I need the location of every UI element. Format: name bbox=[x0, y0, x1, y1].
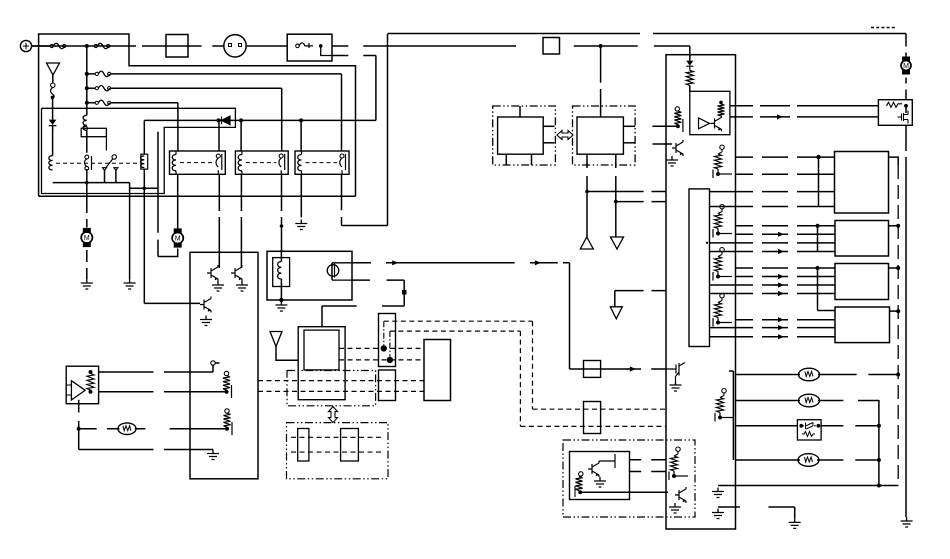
wire y=449.5 bbox=[79, 449, 213, 451]
motor M3 (right) bbox=[901, 57, 911, 75]
wire y=201.6 to ECU bbox=[616, 201, 666, 203]
node (lamp wire left) bbox=[77, 427, 81, 431]
svg-text:M: M bbox=[175, 236, 181, 243]
arrow mark (y369) bbox=[626, 366, 636, 371]
fuse F2 bbox=[94, 43, 110, 48]
wire CB3 pin3 y=285 bbox=[710, 282, 835, 287]
driver cell DC5 bbox=[715, 389, 734, 422]
gauge G1 (circle on feed wire) bbox=[224, 35, 246, 57]
wire diode bus y=120.4 bbox=[144, 119, 376, 121]
dashed wire y=391.4 bbox=[258, 390, 424, 392]
wire left column to diode bbox=[52, 97, 54, 119]
ground (ECU g2) bbox=[712, 509, 724, 519]
dashed wire y=409.2 bbox=[533, 408, 667, 410]
node (trunk/fuse3) bbox=[85, 72, 89, 76]
module RB right pins bbox=[623, 126, 635, 143]
node (x878/diode) bbox=[877, 424, 881, 428]
connector triangle (up) bbox=[580, 237, 593, 249]
conn box RB2 (tall right) bbox=[424, 340, 451, 401]
ground (Q9) bbox=[670, 381, 682, 391]
wire motor1 column bbox=[86, 183, 88, 228]
wire CB3 pin4 y=293.5 bbox=[710, 291, 835, 296]
driver cell DC6 bbox=[669, 447, 688, 480]
arrow mark (sensor out1 a) bbox=[388, 260, 398, 265]
switch contact (in module, y363) bbox=[211, 361, 220, 372]
module RB bottom pins bbox=[587, 154, 616, 165]
wire relay A left pin bottom (to motor M2) bbox=[177, 174, 179, 228]
module box LB (dash-dot) bbox=[493, 106, 556, 165]
wire fuse F3 output y=73.9 bbox=[87, 73, 342, 75]
wire relay C left pin top bbox=[300, 120, 302, 151]
battery B1 (positive terminal) bbox=[20, 40, 50, 51]
wire RB pin2 down to triangle bbox=[615, 163, 617, 237]
dashed wire y=348.4 bbox=[339, 347, 424, 349]
dashed wire y=437.3 bbox=[291, 436, 384, 438]
dashed wire y=321.2 bbox=[384, 320, 533, 322]
wire S2 right throw down bbox=[115, 171, 117, 183]
transfer arrow (LB-RB) bbox=[557, 131, 573, 140]
wire y=225.5 link bbox=[342, 225, 388, 227]
node big (T1 b) bbox=[387, 357, 393, 363]
arrow mark (y116.9) bbox=[773, 114, 783, 119]
wire relay A right pin bottom bbox=[218, 174, 220, 268]
wire feed drop x=689.8 bbox=[689, 46, 691, 61]
wire drop to ground g3 bbox=[794, 507, 796, 518]
wire drop x=569.5 bbox=[569, 263, 571, 369]
wire sensor out2 y=280.1 bbox=[352, 279, 404, 281]
wire RB out2 y=144 bbox=[652, 143, 672, 145]
wire diode box y=425.8 bbox=[736, 425, 879, 427]
svg-text:M: M bbox=[903, 63, 909, 70]
wire lamp3 y=460 bbox=[736, 459, 879, 461]
wire CB2 pin1 y=225.8 bbox=[736, 225, 835, 227]
diode D2 (vertical, pointing down) bbox=[49, 120, 57, 131]
wire y=182.6 (trunk to S2) bbox=[53, 182, 130, 184]
transistor Q8 (ECU bottom) bbox=[669, 487, 686, 513]
dashed stub (top right) bbox=[871, 27, 896, 29]
conn rect (M2 left) bbox=[298, 429, 309, 462]
connector triangle (MC) bbox=[270, 332, 282, 347]
wire ECU out2 y=116.9 bbox=[730, 116, 879, 118]
fuse F5 bbox=[95, 100, 111, 105]
node (x878/lamp3) bbox=[877, 458, 881, 462]
module LB bottom pins bbox=[506, 154, 531, 165]
wire motor M3 to driver box bbox=[905, 78, 907, 100]
transistor Q5 (ECU) bbox=[666, 140, 683, 166]
sensor element (circle) bbox=[327, 263, 352, 280]
diode D3 (vertical) bbox=[686, 61, 693, 71]
wire gnd y=507 bbox=[718, 506, 795, 508]
node (x878/gnd wire) bbox=[877, 484, 881, 488]
fuse box (small, on feed wire) bbox=[543, 38, 560, 55]
wire drop x=600.6 (to relay box RB) bbox=[600, 46, 602, 117]
lamp LP3 bbox=[799, 394, 820, 407]
breaker frame (around trunk) bbox=[81, 126, 106, 150]
wire CB4 pin4 y=336.8 bbox=[710, 334, 835, 339]
transistor Q9 (ECU, y369 input) bbox=[666, 363, 685, 382]
wire coil K0b down bbox=[143, 169, 145, 188]
transistor Q1 bbox=[207, 265, 224, 291]
wire relay B right pin top (from F4) bbox=[281, 88, 283, 151]
changeover switch S2 bbox=[103, 155, 118, 171]
sensor coil bbox=[278, 251, 282, 300]
relay K1 (box A) bbox=[170, 151, 226, 174]
wire lamp2 y=400 bbox=[736, 400, 879, 402]
transfer arrow (vertical) bbox=[329, 407, 338, 423]
conn rect (M2 right) bbox=[341, 429, 359, 462]
fan driver box (right) bbox=[878, 100, 912, 126]
wire bottom out3 y=492.3 bbox=[580, 491, 668, 493]
connector box CB2 bbox=[835, 221, 889, 257]
wire CB4 pin3 y=327.6 bbox=[710, 325, 835, 330]
relay K2 (box B) bbox=[235, 151, 288, 174]
wire op-amp down bbox=[78, 429, 80, 450]
node (y188/coil) bbox=[143, 187, 147, 191]
wire CB2 pin4 y=251.5 bbox=[710, 249, 835, 254]
lamp LP4 bbox=[798, 454, 819, 467]
wire relay B left pin top bbox=[240, 120, 242, 151]
wire relay C right pin top (from F3) bbox=[341, 74, 343, 151]
wire left column to coil bbox=[52, 126, 54, 156]
connector triangle (left, page ref) bbox=[47, 63, 60, 75]
transistor Q4 (ECU) bbox=[711, 115, 722, 131]
wire relay C left pin bottom bbox=[300, 174, 302, 217]
wire triangle to switch bbox=[52, 75, 54, 84]
bottom inner box bbox=[570, 452, 630, 500]
diode D1 (on diode bus, pointing left) bbox=[222, 116, 231, 125]
wire trunk below contact bbox=[86, 169, 88, 183]
wire MC top pin bbox=[321, 306, 323, 327]
ignition switch contact bbox=[296, 43, 332, 56]
wire riser x=375.9 bbox=[375, 56, 377, 121]
wire relay C right pin bottom bbox=[341, 174, 343, 225]
wire y=391.7 (op-amp to module) bbox=[99, 391, 227, 393]
wire relay B right pin bottom (to sensor coil) bbox=[280, 174, 284, 251]
relay coil K0b (boxed coil) bbox=[141, 120, 148, 169]
wire CB1 pin4 y=206.5 bbox=[710, 206, 835, 208]
pass connector box A bbox=[584, 361, 601, 378]
svg-text:M: M bbox=[84, 235, 90, 242]
ignition switch box bbox=[287, 34, 332, 61]
connector box CB4 bbox=[835, 307, 890, 343]
wire fuse F4 output y=88.2 bbox=[87, 87, 282, 89]
wire y=306 (to MC) bbox=[322, 305, 404, 307]
ground (right rail) bbox=[901, 517, 913, 527]
wire below motor M1 bbox=[86, 250, 88, 279]
relay K3 (box C) bbox=[295, 151, 349, 174]
module area box M1 (dash-dot) bbox=[287, 371, 376, 406]
node (diode bus / relay A) bbox=[217, 118, 221, 122]
ground (g3) bbox=[789, 518, 801, 528]
wire relay A left pin top bbox=[177, 103, 179, 151]
sensor box (center) bbox=[267, 251, 352, 300]
wire bottom out2 y=471.5 bbox=[630, 471, 667, 473]
connector box CB3 bbox=[835, 264, 889, 300]
wire ignition output y=55.5 bbox=[332, 55, 376, 57]
ground (below relay C) bbox=[295, 220, 307, 230]
wire trunk below L1 bbox=[86, 130, 88, 153]
node A (battery bus junction) bbox=[85, 44, 89, 48]
wire riser x=387.5 (to top bus) bbox=[387, 34, 389, 226]
wire CB2 right pin bbox=[889, 224, 901, 228]
resistor R7 (fan box) bbox=[887, 102, 908, 107]
wire fuse F5 output y=102.8 bbox=[87, 102, 178, 104]
dashed drop x=532.5 bbox=[532, 321, 534, 409]
wire triangle to MC bbox=[276, 347, 298, 361]
motor M1 bbox=[81, 228, 92, 247]
ground (ECU g1) bbox=[712, 488, 724, 498]
wire CB2 tie x=817.5 bbox=[816, 224, 820, 252]
wire bottom out1 y=459.8 bbox=[630, 459, 667, 461]
wire CB1 pin2 y=174.3 bbox=[736, 173, 835, 175]
lamp LP2 bbox=[799, 368, 820, 381]
wire CB1 tie x=818.5 bbox=[816, 155, 820, 207]
inner enclosure loop (diode sub-box) bbox=[42, 108, 236, 193]
bottom module box (dash-dot) bbox=[563, 440, 695, 517]
wire x=158 (motor M2 return riser) bbox=[157, 132, 159, 257]
res cell (bottom inner) bbox=[575, 472, 583, 497]
wire CB1 pin3 y=191.6 bbox=[710, 191, 835, 193]
wire right rail x=906 bbox=[905, 106, 907, 517]
node (fb top) bbox=[89, 370, 93, 374]
connector triangle (down) bbox=[611, 237, 624, 249]
wire x=733.4 (lamp feed) bbox=[729, 371, 733, 460]
pass connector box B bbox=[584, 402, 601, 434]
module LB top pin bbox=[519, 106, 521, 117]
mosfet Q6 (fan box) bbox=[898, 111, 909, 124]
driver module box (left center) bbox=[190, 252, 258, 478]
transistor Q2 bbox=[231, 265, 248, 291]
fuse F1 bbox=[50, 43, 66, 48]
connector triangle (down 2) bbox=[610, 307, 622, 319]
wire y=369 (to ECU) bbox=[570, 368, 667, 370]
node (RB pin1 tee) bbox=[585, 190, 589, 194]
wire drop x=614.8 bbox=[614, 291, 616, 307]
op-amp U2 (ECU) bbox=[699, 118, 710, 129]
wire drop x=404.2 bbox=[403, 280, 405, 306]
op-amp U1 triangle bbox=[66, 381, 85, 400]
resistor R5 (pull-up) bbox=[718, 101, 725, 116]
wire RB out1 y=126.3 bbox=[652, 125, 678, 127]
wire drop x=878.9 bbox=[878, 400, 880, 486]
wire CB3 right pin bbox=[889, 266, 901, 270]
resistor R6 (input) bbox=[674, 107, 683, 132]
wire relay B left pin bottom bbox=[240, 174, 242, 268]
module area box M2 (dash-dot) bbox=[287, 423, 389, 479]
transistor Q7 (bottom inner) bbox=[588, 454, 615, 487]
inner module box IM (ECU) bbox=[689, 189, 710, 347]
wire y=188.3 bbox=[130, 183, 158, 189]
ground (below x=129.6) bbox=[124, 279, 136, 289]
node (fb bottom) bbox=[89, 390, 93, 394]
wire CB2 pin2 y=234.3 bbox=[736, 232, 835, 237]
wire right drop x=906 (to motor M3) bbox=[905, 34, 907, 59]
module box RB (dash-dot) bbox=[573, 106, 636, 165]
arrow mark (x404) bbox=[402, 290, 407, 295]
dashed link rail x=898.2 bbox=[897, 165, 899, 486]
MC outer box bbox=[298, 327, 345, 400]
connector box CB1 bbox=[835, 152, 889, 214]
res cell R2 (in module) bbox=[224, 409, 233, 435]
dashed wire y=426.4 bbox=[520, 425, 666, 427]
wire CB3 pin1 y=268 bbox=[736, 267, 835, 269]
node (diode bus / relay C) bbox=[299, 118, 303, 122]
resistor R4 (feed) bbox=[686, 70, 693, 91]
motor M2 bbox=[172, 228, 183, 247]
wire CB1 pin1 y=157.1 bbox=[736, 156, 835, 158]
wire S2 left throw down bbox=[104, 171, 106, 183]
top bus wire y=33.5 bbox=[388, 33, 907, 35]
dashed relay link y=163.2 bbox=[56, 162, 139, 164]
node (trunk/fuse4) bbox=[85, 86, 89, 90]
dashed wire y=359.9 bbox=[339, 359, 424, 361]
driver cell DC3 bbox=[713, 248, 732, 281]
wire y=428.7 (lamp wire) bbox=[79, 428, 227, 430]
resistor R3 (op-amp fb) bbox=[87, 374, 94, 391]
wire below motor M2 bbox=[158, 249, 178, 257]
diode-resistor box (parallel) bbox=[797, 420, 821, 440]
wire lamp1 y=374.5 bbox=[736, 374, 899, 376]
module LB right pins bbox=[543, 126, 554, 143]
wire op-amp output stub bbox=[78, 400, 80, 429]
wire gnd y=485.5 bbox=[718, 485, 898, 487]
node big (T1 a) bbox=[381, 345, 387, 351]
dashed wire y=452.1 bbox=[291, 451, 384, 453]
wire CB3 tie x=817.5 (to CB4) bbox=[816, 266, 836, 311]
conn box T2 (vertical) bbox=[379, 370, 396, 401]
dashed wire y=380.6 bbox=[258, 380, 424, 382]
node (trunk/y182) bbox=[85, 181, 89, 185]
driver cell DC2 bbox=[713, 205, 732, 238]
driver cell DC1 bbox=[713, 145, 732, 178]
feedback box (ECU) bbox=[690, 91, 730, 134]
main feed wire (battery bus) y=46 bbox=[32, 45, 690, 47]
wire CB2 pin3 y=242.9 bbox=[710, 242, 835, 244]
wire x=129.6 down to ground bbox=[129, 188, 131, 279]
ground (below motor M1) bbox=[81, 279, 93, 289]
node (diode bus / relay B) bbox=[239, 118, 243, 122]
sensor inner box bbox=[273, 258, 290, 287]
node (feed/RB drop) bbox=[599, 44, 603, 48]
conn box T1 (vertical) bbox=[379, 314, 396, 367]
contact on trunk (relay contact) bbox=[85, 155, 92, 170]
fuse F3 bbox=[95, 71, 111, 76]
wire RB pin1 down to triangle bbox=[586, 163, 588, 237]
switch S1 (on left column) bbox=[51, 83, 55, 99]
wire x=144.3 (to Q3) bbox=[143, 188, 145, 303]
wire ECU out1 y=105.8 bbox=[730, 105, 879, 107]
module box RB inner bbox=[577, 117, 623, 154]
enclosure box (engine compartment harness) bbox=[39, 34, 356, 196]
wire y=290.6 (to ECU) bbox=[615, 290, 666, 292]
fuse F4 bbox=[95, 86, 111, 91]
module box LB inner bbox=[498, 117, 544, 154]
wire relay A right pin top bbox=[218, 120, 220, 151]
node (rail/lamp1) bbox=[896, 373, 900, 377]
dashed drop x=520.4 bbox=[519, 331, 521, 426]
ground (sensor) bbox=[275, 301, 287, 311]
wire trunk x=86.8 (fuse taps) bbox=[86, 46, 88, 115]
node (RB pin2 tee) bbox=[614, 200, 618, 204]
dashed wire y=331.1 bbox=[390, 330, 521, 332]
res cell R1 (in module) bbox=[223, 371, 232, 398]
wire CB4 pin2 y=319.7 bbox=[736, 317, 835, 322]
node (trunk/fuse5) bbox=[85, 101, 89, 105]
wire y=191.5 to ECU bbox=[587, 191, 666, 193]
dash-dot risers (T1) bbox=[384, 321, 390, 360]
fusebox connector box bbox=[166, 35, 188, 58]
lamp LP1 (left) bbox=[118, 423, 136, 435]
wire CB1 right pin bbox=[889, 157, 899, 165]
inductor L1 (on trunk) bbox=[83, 115, 87, 130]
wire CB4 right pin bbox=[890, 309, 901, 313]
MC inner box bbox=[304, 330, 339, 370]
op-amp box U1 bbox=[66, 366, 98, 404]
node (IM stray) bbox=[706, 242, 708, 244]
node (sensor gnd) bbox=[279, 298, 283, 302]
ground (module, y450) bbox=[207, 450, 219, 460]
transistor Q3 bbox=[200, 297, 212, 326]
wire CB3 pin2 y=276.5 bbox=[736, 274, 835, 279]
wire sensor out1 y=262.8 bbox=[352, 262, 570, 264]
wire y=372 (op-amp to module) bbox=[99, 371, 213, 373]
driver cell DC4 bbox=[713, 294, 732, 327]
wire x=144.3 (to transistor Q3 base) bbox=[144, 302, 200, 304]
arrow mark (sensor out1 b) bbox=[531, 260, 541, 265]
relay coil K0 (left column) bbox=[49, 156, 53, 170]
ECU box (tall right) bbox=[666, 55, 736, 529]
